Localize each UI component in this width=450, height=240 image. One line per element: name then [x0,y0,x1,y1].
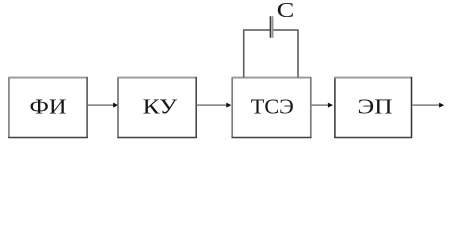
svg-text:ФИ: ФИ [30,95,67,119]
feedback wire left vertical segment [243,30,245,78]
feedback wire top-left horizontal segment [243,29,270,31]
feedback wire top-right horizontal segment [273,29,299,31]
capacitor C right plate [272,16,274,38]
block ФИ (box U1) [8,77,87,138]
block КУ (box U2) [117,77,196,138]
svg-text:C: C [277,0,295,22]
svg-text:КУ: КУ [143,95,178,119]
feedback wire right vertical segment [297,30,299,78]
label C (capacitor value) [277,0,295,22]
svg-text:ТСЭ: ТСЭ [251,95,294,119]
wire/arrow КУ to ТСЭ [197,103,232,108]
wire/arrow ТСЭ to ЭП [311,103,333,108]
block ТСЭ (box U3) [232,77,312,138]
capacitor C left plate [269,16,271,38]
block ЭП (box U4) [334,77,412,138]
wire/arrow ФИ to КУ [88,103,118,108]
svg-text:ЭП: ЭП [358,95,393,119]
output wire/arrow from ЭП [412,103,444,108]
